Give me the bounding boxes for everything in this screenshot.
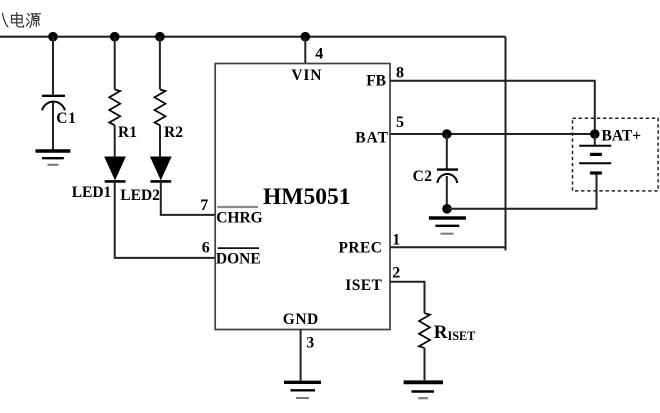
svg-text:7: 7 — [200, 197, 208, 214]
svg-text:VIN: VIN — [291, 67, 322, 84]
ground (below GND pin) — [284, 382, 321, 398]
op-amp U1 HM5051 IC body — [215, 64, 390, 330]
capacitor C2 — [437, 170, 458, 209]
svg-text:R2: R2 — [164, 124, 183, 141]
ground (below C2) — [429, 218, 466, 234]
node: junction dot C2 ground — [442, 204, 452, 214]
ground (below C1) — [36, 151, 71, 165]
node: junction dot at C1 — [48, 32, 58, 42]
wire: C1 top lead — [52, 37, 54, 95]
wire: R1 top lead — [114, 37, 116, 90]
wire: ISET pin 2 to RISET — [390, 282, 425, 314]
net label 入电源 (input power, partially cropped) — [3, 13, 41, 28]
wire: BAT pin 5 to battery positive — [390, 133, 595, 135]
wire: PREC pin 1 to vertical rail — [390, 246, 506, 248]
svg-text:BAT: BAT — [355, 129, 389, 146]
pin label DONE with overline — [218, 247, 259, 249]
LED LED2 — [150, 157, 171, 181]
svg-text:CHRG: CHRG — [216, 209, 263, 226]
wire: RISET to ground — [424, 348, 426, 380]
wire: ground node to battery negative — [447, 174, 597, 209]
wire: R2 to LED2 — [159, 125, 161, 157]
wire: VIN stub pin 4 — [304, 37, 306, 64]
svg-text:2: 2 — [392, 265, 400, 282]
svg-text:HM5051: HM5051 — [263, 184, 350, 210]
svg-text:GND: GND — [283, 311, 319, 328]
node: junction dot BAT+ — [590, 129, 600, 139]
svg-text:5: 5 — [396, 114, 404, 131]
node: junction dot at R2 — [155, 32, 165, 42]
svg-text:BAT+: BAT+ — [602, 128, 642, 145]
pin label CHRG with overline — [217, 206, 258, 208]
svg-text:C1: C1 — [56, 110, 77, 127]
svg-text:LED1: LED1 — [72, 184, 112, 201]
svg-text:DONE: DONE — [216, 250, 261, 267]
wire: LED2 cathode to CHRG pin 7 — [161, 181, 215, 215]
wire: LED1 cathode to DONE pin 6 — [115, 181, 216, 258]
wire: vertical rail from VIN rail down to PREC — [505, 37, 507, 251]
svg-text:6: 6 — [202, 240, 210, 257]
LED LED1 — [105, 157, 126, 181]
svg-text:PREC: PREC — [339, 240, 383, 257]
svg-text:1: 1 — [392, 231, 400, 248]
battery BT1 — [579, 134, 611, 173]
svg-text:4: 4 — [315, 46, 323, 63]
node: junction dot BAT/C2 — [442, 129, 452, 139]
svg-text:3: 3 — [306, 334, 314, 351]
svg-text:FB: FB — [366, 73, 386, 90]
resistor RISET — [419, 313, 430, 348]
resistor R2 — [155, 90, 166, 126]
svg-text:8: 8 — [396, 65, 404, 82]
svg-text:LED2: LED2 — [120, 187, 160, 204]
wire: R1 to LED1 — [114, 125, 116, 157]
node: junction dot at VIN stub — [301, 32, 311, 42]
svg-text:R1: R1 — [118, 124, 137, 141]
resistor R1 — [109, 90, 120, 126]
svg-text:C2: C2 — [413, 168, 433, 185]
node: junction dot at R1 — [110, 32, 120, 42]
wire: R2 top lead — [159, 37, 161, 90]
wire: FB pin 8 to battery positive — [390, 81, 595, 134]
wire: C2 top lead — [446, 134, 448, 169]
wire: top VIN rail — [0, 36, 506, 38]
capacitor C1 — [42, 96, 65, 150]
ground (below RISET) — [404, 382, 443, 398]
wire: GND pin 3 stub — [300, 330, 302, 381]
battery holder dashed box — [573, 118, 659, 191]
svg-text:ISET: ISET — [345, 277, 382, 294]
